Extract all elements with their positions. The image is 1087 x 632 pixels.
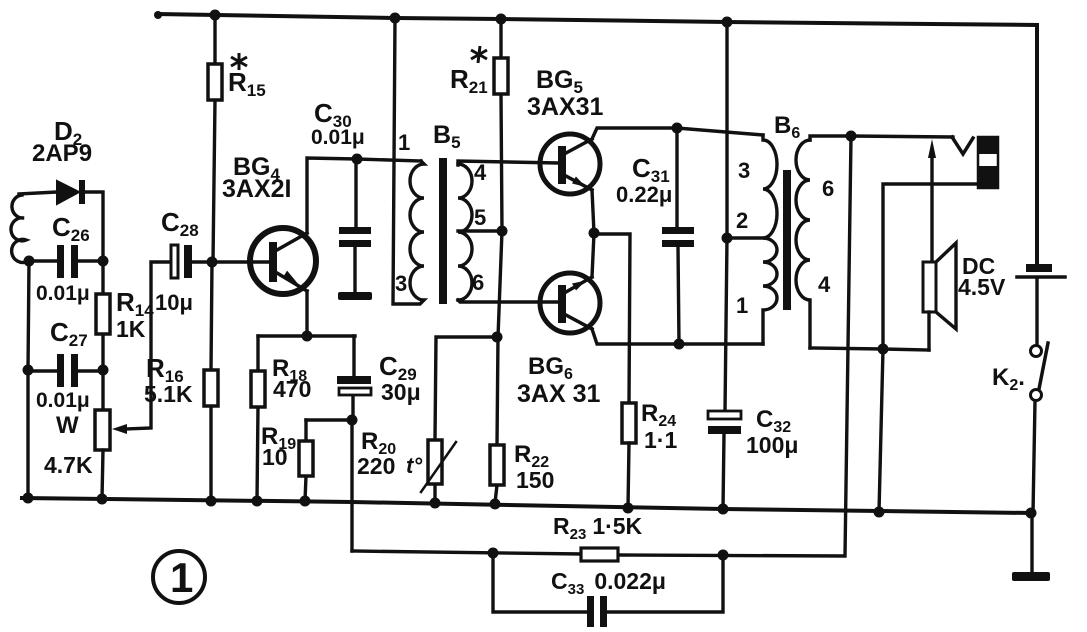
- resistor R15: [208, 15, 222, 262]
- svg-text:C27: C27: [50, 317, 88, 350]
- svg-text:BG6: BG6: [528, 353, 573, 383]
- svg-text:3: 3: [395, 271, 407, 296]
- asterisk R15: [231, 53, 247, 70]
- node C33 left junction: [488, 548, 499, 559]
- battery DC 4.5V: [1017, 264, 1065, 345]
- capacitor C33: [493, 553, 723, 627]
- diode D2: [19, 180, 103, 261]
- wire left column: [28, 261, 29, 498]
- transformer B5 core: [439, 158, 447, 304]
- node rail-B5 junction: [390, 13, 401, 24]
- resistor R14: [96, 261, 110, 410]
- node rail-R21 junction: [496, 14, 507, 25]
- wire feedback drop to R23 line: [350, 420, 353, 551]
- svg-text:K2.: K2.: [992, 364, 1025, 394]
- resistor R22: [490, 231, 504, 503]
- svg-text:1·1: 1·1: [644, 427, 677, 453]
- node C33 right junction: [718, 550, 729, 561]
- transformer B6 secondary: [796, 136, 953, 350]
- figure number circle 1: [153, 551, 205, 603]
- svg-text:1K: 1K: [116, 316, 146, 342]
- resistor R18: [251, 336, 265, 501]
- wire BG4 collector: [307, 158, 421, 233]
- svg-text:10μ: 10μ: [155, 290, 193, 315]
- svg-text:100μ: 100μ: [746, 432, 798, 458]
- svg-text:150: 150: [516, 467, 554, 493]
- svg-text:R21: R21: [450, 64, 488, 97]
- node C32 bus: [718, 504, 729, 515]
- svg-text:4.5V: 4.5V: [958, 274, 1006, 300]
- svg-text:3: 3: [738, 158, 750, 183]
- svg-text:B5: B5: [433, 121, 461, 152]
- transformer B5 primary: [393, 18, 424, 304]
- transformer B5 secondary: [458, 161, 559, 302]
- wire emitter node horizontal: [258, 334, 355, 337]
- capacitor C29: [337, 336, 371, 420]
- svg-text:3AX 31: 3AX 31: [517, 380, 600, 408]
- node R19 bus: [300, 496, 311, 507]
- node bus right end: [1026, 508, 1037, 519]
- node R18 bus: [252, 496, 263, 507]
- svg-text:2AP9: 2AP9: [32, 140, 92, 167]
- svg-text:4.7K: 4.7K: [44, 452, 93, 478]
- node R22 bus: [490, 499, 501, 510]
- node R16 bus: [206, 496, 217, 507]
- svg-text:1: 1: [170, 554, 193, 601]
- node rail-B6 junction: [722, 17, 733, 28]
- node C26 right: [98, 256, 109, 267]
- svg-text:470: 470: [273, 376, 311, 402]
- node C28-base junction: [207, 257, 218, 268]
- wire emitters to R24: [594, 234, 630, 403]
- svg-text:R15: R15: [228, 67, 266, 100]
- svg-text:1: 1: [736, 293, 748, 318]
- svg-text:5.1K: 5.1K: [144, 381, 193, 407]
- svg-text:B6: B6: [774, 112, 800, 142]
- capacitor C32: [708, 411, 741, 509]
- svg-text:30μ: 30μ: [381, 379, 421, 405]
- jack contact V: [952, 137, 973, 154]
- ground chassis bar under C30: [338, 292, 372, 300]
- svg-text:R24: R24: [641, 400, 676, 430]
- node C31 top: [672, 123, 683, 134]
- inductor antenna coil: [11, 195, 28, 262]
- svg-text:10: 10: [262, 444, 288, 470]
- svg-text:W: W: [56, 412, 79, 439]
- svg-text:C28: C28: [161, 207, 199, 240]
- node B6 pin6 feedback junction: [846, 131, 857, 142]
- resistor R24: [622, 403, 636, 508]
- svg-text:2: 2: [736, 208, 748, 233]
- svg-text:1: 1: [398, 130, 410, 155]
- svg-text:4: 4: [474, 160, 487, 185]
- wire speaker top with arrow: [928, 139, 936, 262]
- node C26 left: [24, 256, 35, 267]
- ground symbol: [1012, 513, 1050, 581]
- svg-text:R231·5K: R231·5K: [553, 513, 643, 543]
- svg-text:0.01μ: 0.01μ: [36, 282, 90, 305]
- resistor R19: [299, 420, 313, 501]
- transistor BG6: [540, 273, 600, 333]
- wire BG6 emitter up: [592, 233, 594, 277]
- switch K2: [1031, 343, 1049, 513]
- wire top supply rail: [154, 11, 1037, 264]
- wire ground bus: [22, 498, 1031, 513]
- node jack return bus: [874, 507, 885, 518]
- node C31 bottom: [674, 339, 685, 350]
- resistor R20 thermistor: [421, 337, 497, 502]
- svg-text:C330.022μ: C330.022μ: [551, 568, 666, 598]
- wire BG4 emitter: [305, 291, 308, 336]
- transistor BG5: [540, 134, 600, 194]
- node emitters junction: [589, 228, 600, 239]
- svg-text:0.22μ: 0.22μ: [616, 182, 672, 207]
- node C30 top: [352, 154, 363, 165]
- svg-text:6: 6: [472, 270, 484, 295]
- node R20 top junction: [492, 332, 503, 343]
- node BG4 emitter junction: [302, 331, 313, 342]
- node R20 bus: [430, 498, 441, 509]
- svg-text:4: 4: [818, 272, 831, 297]
- earphone jack: [978, 137, 998, 188]
- potentiometer W: [95, 410, 110, 499]
- wire BG6 collector to B6 pin1: [592, 329, 763, 344]
- svg-text:C26: C26: [52, 212, 90, 245]
- svg-text:5: 5: [474, 205, 486, 230]
- wire supply to B6 tap2 and C32: [725, 22, 727, 412]
- svg-text:0.01μ: 0.01μ: [311, 126, 365, 149]
- resistor R21: [494, 19, 508, 231]
- wire BG5 emitter down: [592, 190, 594, 233]
- svg-text:3AX31: 3AX31: [527, 93, 604, 121]
- wire jack sleeve return: [879, 184, 978, 512]
- wire W wiper from C28: [112, 262, 171, 434]
- svg-text:6: 6: [822, 176, 834, 201]
- transformer B6 core: [783, 170, 791, 310]
- resistor R16: [204, 262, 218, 501]
- capacitor C26: [29, 245, 103, 278]
- node B5 tap5 junction: [497, 226, 508, 237]
- node speaker wire junction: [878, 344, 889, 355]
- capacitor C27: [28, 354, 103, 387]
- node B6 tap2: [722, 233, 733, 244]
- capacitor C28: [171, 245, 270, 278]
- capacitor C30: [339, 159, 371, 292]
- asterisk R21: [471, 46, 487, 63]
- node bus left end: [23, 493, 34, 504]
- svg-text:220: 220: [357, 453, 395, 479]
- node C27 left: [23, 365, 34, 376]
- svg-text:3AX2I: 3AX2I: [222, 175, 291, 203]
- speaker: [923, 243, 956, 350]
- node rail-R15 junction: [210, 10, 221, 21]
- node R24 bus: [623, 503, 634, 514]
- wire BG5 collector to B6 pin3: [592, 128, 763, 139]
- node W bus: [97, 494, 108, 505]
- node C29 bottom junction: [347, 415, 358, 426]
- resistor R23 with line: [352, 137, 851, 561]
- transistor BG4: [250, 228, 316, 294]
- capacitor C31: [662, 128, 694, 344]
- svg-text:0.01μ: 0.01μ: [36, 389, 90, 412]
- svg-text:t°: t°: [406, 453, 422, 478]
- node C27 right: [98, 365, 109, 376]
- wire C29 to R19: [306, 418, 352, 421]
- transformer B6 primary: [727, 135, 777, 344]
